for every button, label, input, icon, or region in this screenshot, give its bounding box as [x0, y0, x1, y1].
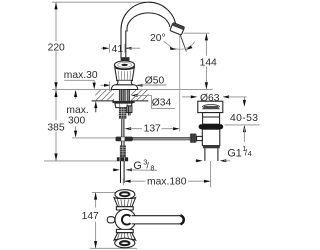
svg-text:max.180: max.180: [147, 176, 187, 187]
svg-text:144: 144: [200, 57, 217, 68]
dimension 147: [92, 191, 119, 193]
body circle: [115, 209, 136, 230]
washer under deck: [112, 101, 134, 103]
top knob cone: [114, 198, 136, 207]
deck top line: [52, 89, 213, 91]
knob stem: [197, 136, 203, 140]
dimension G3/8: [113, 169, 116, 171]
lift rod above deck: [127, 90, 129, 106]
svg-text:4: 4: [248, 149, 252, 158]
dimension diam 50: [101, 84, 105, 86]
handle slot: [121, 64, 127, 66]
bottom knob cone: [114, 233, 136, 240]
cross fitting: [116, 137, 133, 142]
bottom collar: [116, 229, 133, 232]
bottom knob ellipse: [115, 238, 135, 248]
knurled knob: [190, 134, 197, 143]
rod below cross: [121, 141, 123, 145]
dimension 40-53: [243, 97, 245, 102]
dimension G1 1/4: [195, 160, 198, 162]
svg-text:40-53: 40-53: [230, 113, 258, 124]
handle collar: [121, 57, 130, 61]
mounting nut: [115, 103, 132, 108]
supply nut: [117, 157, 128, 161]
shank in deck: [119, 90, 127, 101]
top collar: [116, 207, 133, 210]
left dimension line 220/385: [55, 2, 57, 41]
extension line lever level: [72, 137, 115, 139]
deck bottom line: [92, 100, 114, 102]
top extension line: [52, 1, 147, 3]
svg-text:385: 385: [47, 123, 64, 134]
waste body: [202, 129, 220, 145]
svg-text:Ø34: Ø34: [152, 98, 172, 109]
dimension 41: [101, 47, 106, 49]
o-ring: [199, 124, 224, 129]
svg-text:220: 220: [48, 42, 65, 53]
plug dark top: [202, 106, 220, 109]
dimension 137: [125, 127, 132, 130]
threaded shank upper: [119, 108, 127, 119]
rod guide tab: [127, 106, 132, 113]
svg-text:8: 8: [150, 163, 154, 172]
dimension max.180: [124, 180, 145, 182]
svg-text:137: 137: [144, 124, 161, 135]
C ring spout attach: [122, 215, 130, 225]
faucet body: [116, 81, 134, 85]
svg-text:300: 300: [68, 115, 85, 126]
spout end dark ring: [181, 215, 184, 224]
svg-text:20°: 20°: [150, 33, 166, 44]
deck hatch left: [95, 90, 114, 101]
threaded shank lower: [120, 145, 126, 157]
svg-text:G: G: [133, 160, 141, 172]
handle top ellipse: [115, 61, 135, 69]
supply tube: [120, 161, 122, 183]
aerator: [170, 22, 185, 35]
spout inner arc: [125, 31, 127, 59]
waste flange: [198, 101, 223, 112]
base escutcheon: [111, 85, 137, 90]
left small knob: [107, 217, 115, 223]
angle 20 slant line: [180, 34, 186, 52]
lever arm: [133, 137, 190, 140]
deck hatch right: [131, 90, 149, 101]
top knob ellipse: [115, 190, 135, 199]
svg-text:G1: G1: [227, 148, 241, 160]
dimension diam 63: [182, 96, 191, 98]
body bottom band: [203, 146, 220, 149]
angle 20 vertical reference: [179, 35, 181, 132]
pop-up rod: [121, 119, 123, 137]
spout outer arc: [121, 2, 176, 58]
svg-text:41: 41: [112, 44, 124, 55]
waste neck: [203, 113, 220, 125]
angle 20 arc: [174, 42, 195, 50]
spout tube (top view): [132, 216, 184, 224]
tailpipe: [204, 148, 206, 161]
svg-text:147: 147: [82, 211, 99, 222]
drain centerline: [210, 161, 212, 187]
svg-text:max.30: max.30: [64, 70, 98, 81]
dimension max.300: [75, 91, 77, 99]
dimension line 144: [184, 32, 210, 34]
handle fluted skirt: [115, 67, 135, 80]
extension line 385 bottom: [44, 160, 128, 162]
